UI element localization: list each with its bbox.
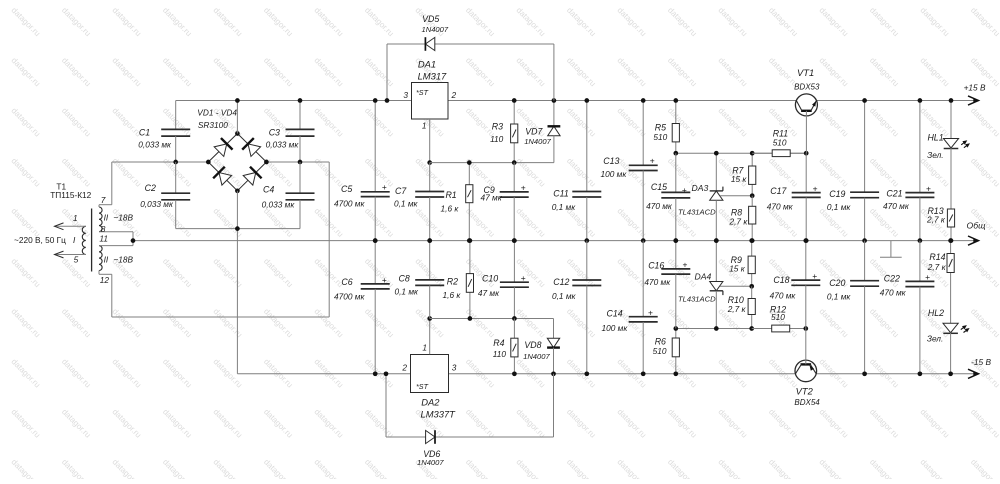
svg-text:II: II xyxy=(104,213,109,223)
svg-text:1,6 к: 1,6 к xyxy=(443,290,462,300)
junction R8 bottom xyxy=(750,238,755,243)
svg-text:BDX53: BDX53 xyxy=(794,82,820,91)
svg-text:2: 2 xyxy=(451,90,457,100)
capacitor C5 xyxy=(361,101,390,241)
svg-text:+: + xyxy=(812,271,817,281)
svg-text:R6: R6 xyxy=(655,336,666,346)
capacitor C11 xyxy=(572,101,601,241)
junction R6 top node xyxy=(673,326,678,331)
svg-text:BDX54: BDX54 xyxy=(794,398,820,407)
svg-text:*ST: *ST xyxy=(416,88,429,97)
junction bridge top vertex xyxy=(235,131,240,136)
junction C13 top xyxy=(641,98,646,103)
svg-text:470 мк: 470 мк xyxy=(646,201,673,211)
svg-text:+: + xyxy=(682,185,687,195)
wire pin 8 to center tap xyxy=(99,232,133,246)
shunt regulator DA3 TL431ACD xyxy=(710,153,753,240)
junction HL2 bottom xyxy=(948,371,953,376)
wire negative adj line xyxy=(430,318,554,320)
svg-text:DA3: DA3 xyxy=(692,183,709,193)
svg-text:C12: C12 xyxy=(553,277,569,287)
svg-text:510: 510 xyxy=(653,346,667,356)
svg-text:HL2: HL2 xyxy=(928,308,944,318)
junction C8 top xyxy=(427,238,432,243)
svg-text:1: 1 xyxy=(422,120,427,130)
svg-text:3: 3 xyxy=(452,362,457,372)
svg-text:R1: R1 xyxy=(445,190,456,200)
svg-text:0,033 мк: 0,033 мк xyxy=(140,199,174,209)
svg-text:110: 110 xyxy=(490,134,504,144)
svg-text:C8: C8 xyxy=(399,273,410,283)
svg-text:100 мк: 100 мк xyxy=(602,323,629,333)
resistor R6 xyxy=(672,329,679,374)
svg-text:8: 8 xyxy=(101,224,106,234)
svg-text:HL1: HL1 xyxy=(927,133,943,143)
svg-text:C3: C3 xyxy=(269,127,280,137)
svg-text:+: + xyxy=(926,183,931,193)
capacitor C2 xyxy=(161,162,190,229)
svg-text:0,1 мк: 0,1 мк xyxy=(827,291,852,301)
capacitor C22 xyxy=(905,241,934,374)
svg-text:15 к: 15 к xyxy=(729,264,746,274)
svg-text:DA4: DA4 xyxy=(695,272,712,282)
junction VD7 top xyxy=(552,98,557,103)
svg-text:TL431ACD: TL431ACD xyxy=(678,207,716,216)
resistor R11 horizontal xyxy=(752,150,806,157)
junction C6 top xyxy=(373,238,378,243)
resistor R9 xyxy=(748,241,755,287)
transistor VT2 BDX54 xyxy=(795,329,817,382)
svg-text:Зел.: Зел. xyxy=(927,334,943,344)
svg-text:C21: C21 xyxy=(886,188,902,198)
junction C11 bottom xyxy=(584,238,589,243)
wire bridge bottom rail xyxy=(176,228,300,230)
svg-text:VD5: VD5 xyxy=(422,14,439,24)
junction C17 bottom xyxy=(804,238,809,243)
capacitor C7 xyxy=(415,163,444,241)
junction C18 top xyxy=(803,238,808,243)
junction C5 top xyxy=(373,98,378,103)
svg-text:+: + xyxy=(683,260,688,270)
svg-text:1N4007: 1N4007 xyxy=(524,137,551,146)
junction center tap xyxy=(131,238,136,243)
junction VD6 left xyxy=(384,371,389,376)
capacitor C12 xyxy=(572,241,601,374)
wire AC left rail xyxy=(112,161,209,163)
junction R5 top xyxy=(673,98,678,103)
junction R3 bottom xyxy=(512,160,517,165)
transformer T1 primary winding I xyxy=(55,223,86,258)
svg-text:+: + xyxy=(813,183,818,193)
junction bridge minus on bottom bridge rail xyxy=(235,226,240,231)
svg-text:-15 В: -15 В xyxy=(971,357,991,367)
svg-text:R4: R4 xyxy=(493,338,504,348)
diode VD5 protection loop xyxy=(387,37,554,100)
diode VD6 protection loop xyxy=(386,374,554,444)
diode VD8 xyxy=(547,319,560,374)
capacitor C21 xyxy=(905,101,934,241)
junction C7 bottom xyxy=(427,238,432,243)
wire bridge minus down to bottom rail xyxy=(236,191,238,374)
svg-text:C16: C16 xyxy=(648,261,664,271)
svg-text:3: 3 xyxy=(403,90,408,100)
svg-text:0,033 мк: 0,033 мк xyxy=(266,139,300,149)
wire pin 11 to center tap xyxy=(99,245,133,247)
svg-text:VD7: VD7 xyxy=(525,127,543,137)
capacitor C17 xyxy=(792,153,821,240)
svg-text:VT1: VT1 xyxy=(797,67,814,78)
svg-text:DA1: DA1 xyxy=(418,59,436,70)
svg-text:0,033 мк: 0,033 мк xyxy=(262,200,296,210)
junction DA3 bottom xyxy=(714,238,719,243)
junction R1 top xyxy=(467,160,472,165)
svg-text:470 мк: 470 мк xyxy=(883,201,910,211)
junction R9-R10 divider xyxy=(749,284,754,289)
junction R14 top xyxy=(948,238,953,243)
svg-text:1: 1 xyxy=(422,342,427,352)
junction C3 top xyxy=(298,98,303,103)
capacitor C9 xyxy=(500,163,529,241)
svg-text:2,7 к: 2,7 к xyxy=(729,216,749,226)
junction VD5 left xyxy=(385,98,390,103)
junction C12 bottom xyxy=(584,371,589,376)
junction C6 bottom xyxy=(373,371,378,376)
svg-text:5: 5 xyxy=(74,254,79,264)
junction VT1 base node xyxy=(804,151,809,156)
svg-text:470 мк: 470 мк xyxy=(880,288,907,298)
svg-text:C17: C17 xyxy=(770,186,787,196)
wire pin 12 to AC lower run xyxy=(99,271,112,318)
junction VT2 base node xyxy=(803,326,808,331)
junction C21 bottom xyxy=(918,238,923,243)
svg-text:0,033 мк: 0,033 мк xyxy=(138,139,172,149)
svg-text:11: 11 xyxy=(99,234,108,244)
junction C20 bottom xyxy=(862,371,867,376)
junction C1 bottom xyxy=(173,160,178,165)
junction bridge bottom vertex xyxy=(235,188,240,193)
junction R4 bottom xyxy=(512,371,517,376)
wire negative reference node line xyxy=(676,328,806,330)
svg-text:+: + xyxy=(648,307,653,317)
svg-text:LM317: LM317 xyxy=(418,71,447,82)
resistor R7 xyxy=(749,153,756,196)
junction bridge plus on top rail xyxy=(235,98,240,103)
wire: raw negative rail / -15V output rail (bottom) xyxy=(237,369,978,378)
svg-text:R14: R14 xyxy=(929,252,945,262)
svg-text:~220 В, 50 Гц: ~220 В, 50 Гц xyxy=(14,235,66,245)
svg-text:C5: C5 xyxy=(341,184,352,194)
svg-text:C19: C19 xyxy=(829,189,845,199)
junction R6 bottom xyxy=(673,371,678,376)
svg-text:0,1 мк: 0,1 мк xyxy=(395,287,420,297)
junction C19 bottom xyxy=(862,238,867,243)
capacitor C1 xyxy=(161,101,190,163)
svg-text:7: 7 xyxy=(101,195,106,205)
svg-text:0,1 мк: 0,1 мк xyxy=(394,199,419,209)
wire DA1 adj pin down (with C7) xyxy=(429,119,431,163)
wire DA2 adj pin up xyxy=(429,319,431,355)
resistor R13 xyxy=(947,209,954,241)
svg-text:C10: C10 xyxy=(482,274,498,284)
op-amp regulator DA2 LM337T box xyxy=(411,355,449,393)
svg-text:0,1 мк: 0,1 мк xyxy=(552,202,577,212)
resistor R4 xyxy=(511,319,518,374)
junction R9 top xyxy=(749,238,754,243)
svg-text:LM337T: LM337T xyxy=(421,408,457,419)
capacitor C18 xyxy=(791,241,820,329)
capacitor C15 xyxy=(661,153,690,240)
junction R7-R8 divider xyxy=(750,193,755,198)
resistor R2 xyxy=(466,241,473,319)
svg-text:1,6 к: 1,6 к xyxy=(441,204,460,214)
junction C22 bottom xyxy=(918,371,923,376)
svg-text:Общ: Общ xyxy=(967,220,987,230)
capacitor C8 xyxy=(415,241,444,319)
bridge diamond wires xyxy=(208,134,266,191)
svg-text:C1: C1 xyxy=(139,127,150,137)
svg-text:R2: R2 xyxy=(447,276,458,286)
junction VD8 bottom xyxy=(551,371,556,376)
wire positive reference node line xyxy=(676,152,806,154)
junction R2 top xyxy=(468,238,473,243)
resistor R5 xyxy=(672,101,679,154)
svg-text:C22: C22 xyxy=(884,274,900,284)
svg-text:C18: C18 xyxy=(773,275,789,285)
diode VD1 (upper-left) xyxy=(213,138,232,157)
svg-text:1: 1 xyxy=(73,213,78,223)
svg-text:+: + xyxy=(521,182,526,192)
transformer T1 secondary winding II (pins 7-8) xyxy=(99,207,102,232)
junction C14 bottom xyxy=(641,371,646,376)
diode VD2 (upper-right) xyxy=(242,138,261,157)
capacitor C4 xyxy=(286,162,315,229)
junction R10 bottom xyxy=(749,326,754,331)
junction C19 top xyxy=(862,98,867,103)
resistor R8 xyxy=(749,196,756,241)
junction C11 top xyxy=(584,98,589,103)
capacitor C20 xyxy=(850,241,879,374)
wire pin 7 to AC left rail xyxy=(99,162,112,207)
junction R7 top xyxy=(750,151,755,156)
svg-text:1N4007: 1N4007 xyxy=(421,25,448,34)
junction DA3 top xyxy=(714,151,719,156)
svg-text:C13: C13 xyxy=(603,156,619,166)
svg-text:470 мк: 470 мк xyxy=(644,277,671,287)
junction DA1 adj node xyxy=(427,160,432,165)
transistor VT1 BDX53 xyxy=(795,94,817,153)
svg-text:+: + xyxy=(650,156,655,166)
wire positive adj line xyxy=(430,162,554,164)
svg-text:C14: C14 xyxy=(607,308,623,318)
wire: common rail (middle) xyxy=(133,236,979,245)
junction bridge left vertex xyxy=(206,160,211,165)
svg-text:C2: C2 xyxy=(145,183,156,193)
svg-text:2,7 к: 2,7 к xyxy=(926,215,946,225)
svg-text:VT2: VT2 xyxy=(796,386,814,397)
svg-text:470 мк: 470 мк xyxy=(770,291,797,301)
capacitor C3 xyxy=(286,101,315,163)
capacitor C10 xyxy=(500,241,529,319)
svg-text:C4: C4 xyxy=(263,185,274,195)
wire: raw positive rail / +15V output rail (top) xyxy=(176,96,979,105)
svg-text:TL431ACD: TL431ACD xyxy=(678,294,716,303)
svg-text:0,1 мк: 0,1 мк xyxy=(827,202,852,212)
svg-text:+: + xyxy=(382,275,387,285)
svg-text:100 мк: 100 мк xyxy=(601,169,628,179)
capacitor C16 xyxy=(661,241,690,329)
svg-text:C6: C6 xyxy=(341,277,352,287)
svg-text:47 мк: 47 мк xyxy=(481,193,503,203)
svg-text:SR3100: SR3100 xyxy=(198,120,228,130)
svg-text:VD1 - VD4: VD1 - VD4 xyxy=(197,107,237,117)
junction C10 bottom xyxy=(512,316,517,321)
svg-text:2,7 к: 2,7 к xyxy=(727,304,747,314)
svg-text:+: + xyxy=(521,273,526,283)
junction C16 top xyxy=(673,238,678,243)
resistor R3 xyxy=(511,101,518,163)
junction DA4 top xyxy=(714,238,719,243)
diode VD4 (lower-right) xyxy=(242,167,261,186)
svg-text:470 мк: 470 мк xyxy=(767,202,794,212)
svg-text:510: 510 xyxy=(653,132,667,142)
svg-text:+15 В: +15 В xyxy=(964,82,986,92)
svg-text:ТП115-К12: ТП115-К12 xyxy=(50,190,91,200)
resistor R12 horizontal xyxy=(752,325,806,332)
svg-text:12: 12 xyxy=(100,275,110,285)
LED HL2 xyxy=(943,323,970,374)
svg-text:VD8: VD8 xyxy=(524,340,541,350)
wire AC right rail xyxy=(112,162,329,317)
svg-text:II: II xyxy=(104,254,109,264)
junction R3 top xyxy=(512,98,517,103)
shunt regulator DA4 TL431ACD xyxy=(710,241,752,329)
junction R5 bottom node xyxy=(673,151,678,156)
junction C9 bottom xyxy=(512,238,517,243)
capacitor C14 xyxy=(629,241,658,374)
svg-text:Зел.: Зел. xyxy=(927,150,943,160)
resistor R1 xyxy=(466,163,473,241)
svg-text:C11: C11 xyxy=(553,189,569,199)
junction R13 bottom xyxy=(949,238,954,243)
diode VD3 (lower-left) xyxy=(213,167,232,186)
transformer T1 secondary winding II (pins 11-12) xyxy=(99,246,102,271)
svg-text:110: 110 xyxy=(493,349,507,359)
wire bridge plus to top rail xyxy=(236,101,238,134)
svg-text:2: 2 xyxy=(401,362,407,372)
transformer core xyxy=(91,209,93,272)
junction R2 bottom xyxy=(468,316,473,321)
junction HL1 top xyxy=(949,98,954,103)
svg-text:4700 мк: 4700 мк xyxy=(334,199,365,209)
capacitor C13 xyxy=(629,101,658,241)
svg-text:R3: R3 xyxy=(492,121,503,131)
svg-text:0,1 мк: 0,1 мк xyxy=(552,291,577,301)
svg-text:510: 510 xyxy=(771,312,785,322)
svg-text:510: 510 xyxy=(773,137,787,147)
svg-text:2,7 к: 2,7 к xyxy=(927,262,947,272)
diode VD7 xyxy=(548,101,561,163)
svg-text:4700 мк: 4700 мк xyxy=(334,292,365,302)
svg-text:~18В: ~18В xyxy=(113,254,133,264)
svg-text:DA2: DA2 xyxy=(421,396,440,407)
capacitor C19 xyxy=(850,101,879,241)
svg-text:R5: R5 xyxy=(655,122,666,132)
svg-text:C7: C7 xyxy=(395,186,407,196)
svg-text:*ST: *ST xyxy=(416,382,429,391)
svg-text:~18В: ~18В xyxy=(113,213,133,223)
svg-text:+: + xyxy=(925,272,930,282)
LED HL1 xyxy=(943,101,970,210)
junction C21 top xyxy=(918,98,923,103)
svg-text:1N4007: 1N4007 xyxy=(417,458,444,467)
junction DA2 adj node xyxy=(427,316,432,321)
capacitor C6 xyxy=(361,241,390,374)
junction DA4 bottom xyxy=(714,326,719,331)
op-amp regulator DA1 LM317 box xyxy=(412,83,449,120)
junction C15 bottom xyxy=(673,238,678,243)
svg-text:47 мк: 47 мк xyxy=(478,288,500,298)
svg-text:1N4007: 1N4007 xyxy=(523,352,550,361)
junction C13 bottom xyxy=(641,238,646,243)
ground chassis tick on common rail xyxy=(880,241,902,258)
svg-text:C20: C20 xyxy=(829,278,845,288)
junction R1 bottom xyxy=(467,238,472,243)
svg-text:C15: C15 xyxy=(651,182,667,192)
svg-text:15 к: 15 к xyxy=(731,174,748,184)
junction C3 bottom xyxy=(298,160,303,165)
junction C5 bottom xyxy=(373,238,378,243)
resistor R10 xyxy=(748,286,755,328)
resistor R14 xyxy=(947,241,954,324)
junction bridge right vertex xyxy=(264,160,269,165)
svg-text:+: + xyxy=(382,182,387,192)
junction C10 top xyxy=(512,238,517,243)
